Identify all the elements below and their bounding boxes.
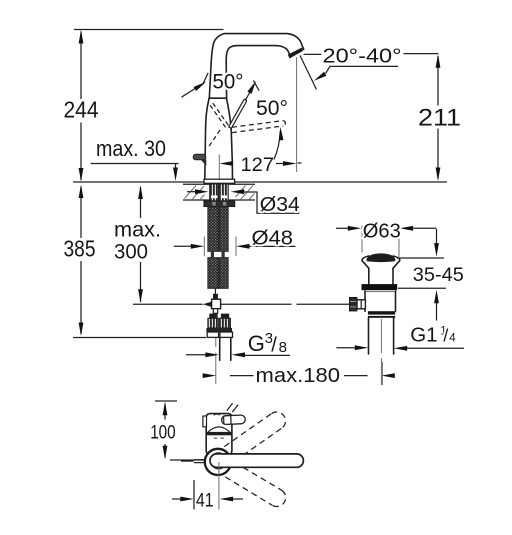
dimension 35-45 lower bbox=[434, 290, 439, 321]
svg-text:max. 30: max. 30 bbox=[96, 136, 166, 161]
faucet spout outer profile bbox=[209, 34, 303, 99]
dimension Ø48 arrows bbox=[174, 244, 296, 249]
waste bottom collar bbox=[368, 311, 395, 318]
svg-text:41: 41 bbox=[196, 489, 214, 511]
gasket underline bbox=[365, 291, 396, 293]
top view lever bbox=[221, 415, 245, 425]
drain centerline bbox=[380, 319, 382, 385]
dimension 244 top tick bbox=[74, 29, 224, 31]
base plate bbox=[204, 179, 235, 183]
body left tab bbox=[193, 154, 206, 166]
svg-text:G: G bbox=[248, 331, 265, 356]
waste gasket ring bbox=[362, 284, 398, 290]
G3/8 connector left shoulder bbox=[207, 332, 218, 337]
dimension 385 bottom tick bbox=[73, 337, 206, 339]
svg-text:244: 244 bbox=[64, 97, 99, 123]
lever dashed mirrored position bbox=[209, 101, 229, 128]
max.300 bottom tick merging into rod bbox=[133, 303, 203, 305]
faucet body left edge bbox=[205, 99, 209, 179]
hose break inner tubes bbox=[211, 252, 214, 258]
top view dashed spout lower position bbox=[225, 462, 285, 506]
top view dashed spout upper position bbox=[224, 412, 285, 461]
drain actuator stem bbox=[357, 300, 365, 309]
shank white slits bbox=[211, 195, 217, 198]
svg-text:50°: 50° bbox=[256, 97, 288, 120]
deck line bbox=[73, 181, 447, 183]
dimension 244 vertical line bbox=[79, 30, 84, 182]
dimension 41 bbox=[172, 497, 243, 502]
threaded shank rod left bbox=[210, 184, 219, 201]
svg-text:/: / bbox=[271, 335, 277, 357]
threaded shank rod right bbox=[220, 184, 229, 201]
dimension 100 bbox=[155, 401, 205, 460]
top view bearing circle bbox=[205, 449, 231, 475]
faucet spout inner profile bbox=[226, 46, 291, 99]
G3/8 connector left cap bbox=[209, 314, 217, 319]
svg-text:50°: 50° bbox=[213, 71, 244, 94]
svg-text:35-45: 35-45 bbox=[413, 264, 464, 286]
lever dashed down-left position bbox=[208, 130, 221, 149]
127 extension line right (spout tip) bbox=[296, 57, 298, 172]
dimension Ø34 arrows and leader bbox=[187, 189, 300, 213]
lever dashed lowered position bbox=[232, 121, 285, 133]
svg-text:4: 4 bbox=[449, 333, 456, 345]
G3/8 connector right cap bbox=[221, 314, 229, 319]
lever solid rod bbox=[229, 87, 253, 129]
horizontal pop-up rod bbox=[221, 303, 350, 305]
svg-text:Ø63: Ø63 bbox=[363, 219, 401, 242]
flexible hose left upper bbox=[208, 207, 219, 251]
G3/8 connector left nut bbox=[208, 318, 219, 328]
svg-text:Ø34: Ø34 bbox=[260, 193, 300, 216]
lower 50 degree arc with arrow bbox=[274, 127, 284, 160]
svg-text:max.180: max.180 bbox=[256, 365, 341, 387]
41 centerline extension bbox=[218, 462, 220, 510]
dimension max.180 bbox=[203, 373, 395, 378]
counter slab bottom line bbox=[183, 199, 255, 201]
spout outlet aerator face bbox=[288, 48, 303, 59]
svg-text:/: / bbox=[443, 326, 448, 346]
flexible hose left lower bbox=[208, 258, 219, 289]
35-45 extension lines bbox=[397, 258, 446, 288]
Ø48 extension lines bbox=[204, 237, 236, 257]
flexible hose right upper bbox=[220, 207, 229, 251]
faucet body right edge bbox=[227, 99, 233, 179]
top view left tab bbox=[203, 416, 207, 427]
dimension max.30 line and arrow bbox=[91, 164, 179, 182]
20-40 degree leader lines bbox=[300, 54, 439, 90]
flexible hose right lower bbox=[220, 258, 229, 289]
top view inner circle bbox=[211, 453, 227, 469]
41 extension line bbox=[193, 480, 195, 510]
G3/8 connector right band bbox=[219, 328, 232, 332]
G3/8 right tube outline bbox=[220, 338, 231, 360]
dimension 127 bbox=[219, 161, 301, 166]
waste neck walls bbox=[369, 268, 393, 284]
dimension max.300 vertical line bbox=[138, 186, 143, 303]
top view body dark band bbox=[206, 432, 231, 435]
svg-text:20°-40°: 20°-40° bbox=[323, 45, 402, 68]
drain actuator knob bbox=[349, 297, 357, 311]
pull rod cross fitting bbox=[212, 299, 221, 309]
dimension 35-45 upper bbox=[434, 229, 439, 257]
top view small marks bbox=[214, 437, 224, 440]
waste tailpipe walls bbox=[369, 318, 394, 354]
deck hatching right bbox=[236, 186, 255, 200]
svg-text:G1: G1 bbox=[410, 324, 437, 347]
pull rod clamp screw bbox=[213, 294, 218, 299]
svg-text:300: 300 bbox=[114, 240, 148, 264]
waste lower body walls bbox=[365, 291, 396, 311]
top view left connection lines bbox=[181, 460, 205, 463]
waste plug dome bbox=[366, 253, 395, 262]
body joint line bbox=[209, 97, 227, 99]
waste flange lips bbox=[362, 256, 400, 268]
dimension Ø63 arrows bbox=[336, 226, 437, 231]
127 extension line left (faucet centerline) bbox=[218, 155, 220, 179]
svg-text:Ø48: Ø48 bbox=[252, 226, 294, 249]
top view solid spout rod bbox=[210, 454, 303, 467]
top view body bbox=[206, 414, 232, 455]
svg-text:8: 8 bbox=[279, 339, 287, 356]
dimension 385 vertical line bbox=[79, 185, 84, 337]
Ø63 extension lines bbox=[362, 226, 399, 258]
G3/8 dimension arrows bbox=[186, 352, 290, 357]
pop-up pull rod vertical bbox=[214, 288, 216, 294]
svg-text:385: 385 bbox=[64, 236, 96, 262]
svg-text:max.: max. bbox=[114, 218, 161, 242]
max.180 right extension bbox=[381, 362, 383, 385]
top view body smile arc bbox=[208, 427, 230, 432]
mounting nut bbox=[204, 201, 235, 207]
deck hatching left bbox=[185, 186, 205, 200]
left tube centerline / max180 extension bbox=[215, 338, 217, 384]
svg-text:211: 211 bbox=[418, 104, 461, 131]
label G 3/8 bbox=[248, 330, 287, 357]
fitting lower stub bbox=[213, 309, 217, 314]
counter slab top line bbox=[183, 183, 255, 185]
top view lever swivel dashes bbox=[227, 403, 238, 412]
dimension G1 1/4 arrows bbox=[336, 345, 464, 350]
svg-text:100: 100 bbox=[150, 422, 176, 444]
G3/8 connector left band bbox=[206, 328, 219, 332]
horizontal pop-up rod left cone bbox=[203, 302, 212, 307]
dimension 211 bbox=[436, 54, 441, 181]
svg-text:127: 127 bbox=[241, 154, 275, 176]
upper 50 degree annotation bbox=[182, 73, 260, 97]
G3/8 connector right nut bbox=[220, 318, 231, 328]
label G1 1/4 bbox=[410, 324, 456, 347]
G3/8 connector right shoulder bbox=[220, 332, 233, 337]
